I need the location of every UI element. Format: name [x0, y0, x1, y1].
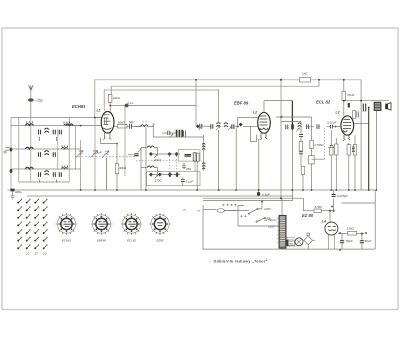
svg-text:10: 10 [26, 252, 30, 256]
svg-text:1kΩ: 1kΩ [302, 72, 308, 76]
svg-text:ECL 82: ECL 82 [316, 100, 331, 105]
svg-text:~10p: ~10p [35, 99, 43, 103]
svg-text:0,005µF: 0,005µF [337, 194, 348, 198]
svg-text:ECH81: ECH81 [62, 239, 72, 243]
svg-text:0,5MΩ: 0,5MΩ [315, 143, 325, 147]
svg-text:4µF: 4µF [97, 151, 102, 155]
svg-text:L1: L1 [97, 109, 101, 113]
svg-text:220V: 220V [263, 207, 272, 211]
svg-text:L2: L2 [253, 111, 257, 115]
svg-text:10: 10 [43, 252, 47, 256]
svg-text:127V: 127V [264, 218, 272, 222]
svg-text:0,5µF: 0,5µF [262, 192, 270, 196]
svg-text:170Ω: 170Ω [155, 179, 163, 183]
svg-text:50µF: 50µF [365, 239, 372, 243]
svg-text:50p: 50p [129, 120, 134, 124]
svg-text:30kΩ: 30kΩ [119, 166, 127, 170]
svg-text:40kΩ: 40kΩ [154, 158, 162, 162]
svg-text:EZ80: EZ80 [157, 239, 164, 243]
svg-text:EZ 80: EZ 80 [302, 213, 314, 218]
svg-text:17: 17 [35, 252, 39, 256]
svg-text:EBF89: EBF89 [97, 239, 106, 243]
svg-text:L3: L3 [336, 111, 340, 115]
svg-text:L4: L4 [322, 220, 326, 224]
svg-text:ECH81: ECH81 [72, 104, 86, 109]
svg-text:400µ: 400µ [15, 190, 22, 194]
svg-text:0,1µ: 0,1µ [128, 101, 134, 105]
svg-text:0,02µF: 0,02µF [327, 120, 337, 124]
svg-text:0,1µF: 0,1µF [186, 179, 194, 183]
svg-text:170Ω: 170Ω [315, 205, 323, 209]
svg-text:30kΩ: 30kΩ [118, 121, 126, 125]
svg-text:110V: 110V [268, 225, 276, 229]
svg-text:ECL82: ECL82 [127, 239, 136, 243]
svg-text:EBF 89: EBF 89 [234, 101, 249, 106]
svg-text:130Ω: 130Ω [347, 227, 355, 231]
svg-text:27kΩ: 27kΩ [346, 93, 355, 97]
svg-text:10kΩ: 10kΩ [113, 96, 121, 100]
svg-text:Odbiornik radiowy „Tenor”: Odbiornik radiowy „Tenor” [214, 259, 268, 263]
svg-text:50µF: 50µF [346, 239, 353, 243]
svg-text:450: 450 [186, 167, 191, 171]
